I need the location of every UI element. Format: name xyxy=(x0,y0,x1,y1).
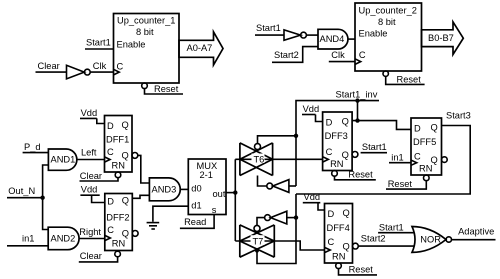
svg-text:D: D xyxy=(107,197,114,207)
svg-text:RN: RN xyxy=(112,239,125,249)
svg-text:Q: Q xyxy=(122,150,129,160)
nor-gate NOR xyxy=(412,227,451,253)
counter U2 Up_counter_2 xyxy=(355,3,422,71)
svg-text:Start1: Start1 xyxy=(86,38,111,48)
inverter (Clear to Clk) xyxy=(67,61,114,79)
svg-text:AND4: AND4 xyxy=(320,34,345,44)
node Out_N xyxy=(7,186,45,200)
node Start1 (top right) xyxy=(255,23,284,35)
wire out to T6 and T7 inputs xyxy=(234,159,236,241)
svg-text:DFF5: DFF5 xyxy=(413,137,436,147)
svg-text:d0: d0 xyxy=(191,184,201,194)
junction MUX out xyxy=(233,190,237,194)
transmission gate T6 xyxy=(240,143,273,176)
power Vdd (DFF1) xyxy=(80,108,105,124)
svg-text:B0-B7: B0-B7 xyxy=(428,33,454,43)
and-gate AND3 xyxy=(149,178,188,201)
bus arrow A0-A7 xyxy=(179,32,223,65)
svg-text:Left: Left xyxy=(81,148,97,158)
svg-text:Up_counter_1: Up_counter_1 xyxy=(117,16,175,26)
flip-flop DFF2 xyxy=(105,194,138,257)
svg-text:in1: in1 xyxy=(22,234,34,244)
node Reset (DFF5 RN) xyxy=(386,179,426,189)
node Right (AND2 output wire) xyxy=(79,227,105,238)
svg-text:D: D xyxy=(328,209,335,219)
svg-text:DFF4: DFF4 xyxy=(327,223,350,233)
flip-flop DFF4 xyxy=(325,204,359,269)
and-gate AND2 xyxy=(48,227,79,250)
svg-text:C: C xyxy=(117,62,124,72)
node in1 (DFF5 C) xyxy=(389,153,411,163)
wire DFF2 Q to AND3 lower input xyxy=(132,195,149,198)
svg-text:Out_N: Out_N xyxy=(8,186,35,196)
svg-text:RN: RN xyxy=(330,159,343,169)
mux MUX 2-1 xyxy=(188,159,226,215)
power Vdd (DFF4) xyxy=(303,192,325,210)
svg-text:D: D xyxy=(326,118,333,128)
svg-text:D: D xyxy=(414,124,421,134)
svg-text:DFF3: DFF3 xyxy=(325,131,348,141)
inverter (T7 pmos control) xyxy=(257,211,296,225)
svg-text:RN: RN xyxy=(419,164,432,174)
svg-text:s: s xyxy=(212,205,217,215)
svg-text:Up_counter_2: Up_counter_2 xyxy=(359,6,417,16)
wire MUX d1 to ground xyxy=(153,206,188,222)
wire MUX out xyxy=(226,192,235,194)
svg-text:P_d: P_d xyxy=(24,142,41,152)
svg-text:Reset: Reset xyxy=(388,179,413,189)
junction Start1_inv to DFF3 Q xyxy=(355,98,359,122)
node Reset (DFF3 RN) xyxy=(335,169,376,179)
svg-text:C: C xyxy=(328,237,335,247)
svg-text:A0-A7: A0-A7 xyxy=(187,43,213,53)
svg-text:Read: Read xyxy=(184,217,206,227)
svg-text:Reset: Reset xyxy=(154,84,179,94)
svg-text:Clear: Clear xyxy=(80,171,102,181)
node Start2 (top right) xyxy=(272,47,318,63)
counter1 Reset pin xyxy=(142,83,183,94)
wire DFF3 Q to DFF5 D xyxy=(352,121,411,130)
svg-text:DFF1: DFF1 xyxy=(106,135,129,145)
node in1 xyxy=(7,234,48,246)
svg-text:RN: RN xyxy=(332,252,345,262)
svg-text:T6: T6 xyxy=(254,155,265,165)
node Start3 (DFF5 Q) xyxy=(296,110,471,194)
svg-text:D: D xyxy=(107,121,114,131)
svg-text:2-1: 2-1 xyxy=(200,170,213,180)
svg-text:Adaptive: Adaptive xyxy=(458,227,494,237)
node Start2 (DFF4 Q to NOR) xyxy=(358,234,414,247)
svg-text:C: C xyxy=(326,147,333,157)
svg-text:Vdd: Vdd xyxy=(81,108,98,118)
svg-text:out: out xyxy=(213,189,226,199)
node Clk (counter2) xyxy=(329,50,355,62)
counter2 Reset pin xyxy=(383,71,425,84)
svg-text:Start2: Start2 xyxy=(361,234,386,244)
inverter (Start1 to AND4) xyxy=(284,30,318,40)
svg-text:d1: d1 xyxy=(191,201,201,211)
svg-text:C: C xyxy=(107,225,114,235)
svg-text:Q: Q xyxy=(122,120,129,130)
net Start3 control (from DFF5) xyxy=(255,194,298,264)
svg-text:Q: Q xyxy=(342,117,349,127)
svg-text:Start1_inv: Start1_inv xyxy=(336,90,378,100)
svg-text:Start3: Start3 xyxy=(446,110,471,120)
svg-text:Clk: Clk xyxy=(93,61,107,71)
svg-text:Reset: Reset xyxy=(397,74,422,84)
wire T7 signal path to DFF4 C xyxy=(235,241,324,250)
node P_d xyxy=(23,142,49,153)
wire T6 signal path to DFF3 C xyxy=(235,158,322,160)
svg-text:Q: Q xyxy=(343,208,350,218)
svg-text:NOR: NOR xyxy=(420,235,441,245)
flip-flop DFF5 xyxy=(411,118,447,181)
and-gate AND4 xyxy=(318,29,355,49)
svg-text:C: C xyxy=(359,50,366,60)
node Left (AND1 output wire) xyxy=(77,148,105,160)
svg-text:Clear: Clear xyxy=(80,251,102,261)
flip-flop DFF3 xyxy=(323,112,358,176)
node Clear (DFF1 RN) xyxy=(80,171,119,181)
svg-text:Q: Q xyxy=(431,123,438,133)
svg-text:Start2: Start2 xyxy=(274,50,299,60)
svg-text:Enable: Enable xyxy=(359,29,388,39)
svg-text:Start1: Start1 xyxy=(362,142,387,152)
svg-text:DFF2: DFF2 xyxy=(106,213,129,223)
node Reset (DFF4 RN) xyxy=(339,264,378,275)
svg-text:Start1: Start1 xyxy=(379,223,404,233)
flip-flop DFF1 xyxy=(105,116,138,178)
svg-text:Right: Right xyxy=(79,227,101,237)
svg-text:8 bit: 8 bit xyxy=(378,17,396,27)
svg-text:Clear: Clear xyxy=(38,61,60,71)
svg-text:in1: in1 xyxy=(391,153,403,163)
net Start1_inv xyxy=(294,90,379,187)
power Vdd (DFF2) xyxy=(80,185,104,203)
wire Out_N to AND1 lower input xyxy=(43,165,49,198)
wire DFF1 Q to AND3 upper input xyxy=(138,155,150,183)
node Start1 (NOR input) xyxy=(378,223,414,233)
node Adaptive xyxy=(452,227,496,240)
svg-text:Clk: Clk xyxy=(331,50,345,60)
power Vdd (DFF3) xyxy=(302,104,323,121)
node Clear xyxy=(36,61,67,72)
svg-text:Start1: Start1 xyxy=(256,23,281,33)
svg-text:C: C xyxy=(414,152,421,162)
and-gate AND1 xyxy=(48,149,76,170)
svg-text:Vdd: Vdd xyxy=(81,185,98,195)
node Start1 (counter1 enable) xyxy=(85,38,114,50)
bus arrow B0-B7 xyxy=(422,22,464,55)
svg-text:Q: Q xyxy=(122,228,129,238)
svg-text:Enable: Enable xyxy=(117,40,146,50)
svg-text:AND3: AND3 xyxy=(152,185,177,195)
svg-text:Vdd: Vdd xyxy=(303,104,320,114)
transmission gate T7 xyxy=(240,225,274,257)
counter U1 Up_counter_1 xyxy=(114,14,180,84)
node Read (MUX select) xyxy=(180,215,214,229)
svg-text:C: C xyxy=(107,147,114,157)
ground xyxy=(147,223,160,229)
svg-text:8 bit: 8 bit xyxy=(136,27,154,37)
node Clear (DFF2 RN) xyxy=(79,251,118,262)
svg-text:Reset: Reset xyxy=(349,264,374,274)
wire T6 pmos gate to control xyxy=(258,136,297,144)
node Start1 (DFF3 Qbar) xyxy=(361,142,387,153)
svg-text:RN: RN xyxy=(112,161,125,171)
svg-text:AND1: AND1 xyxy=(51,155,76,165)
svg-text:Q: Q xyxy=(343,242,350,252)
inverter (T6 nmos control) xyxy=(258,176,297,193)
svg-text:AND2: AND2 xyxy=(51,234,76,244)
svg-text:Q: Q xyxy=(122,196,129,206)
wire Out_N to AND2 upper input xyxy=(43,198,49,230)
svg-text:T7: T7 xyxy=(253,237,264,247)
svg-text:Reset: Reset xyxy=(348,169,373,179)
